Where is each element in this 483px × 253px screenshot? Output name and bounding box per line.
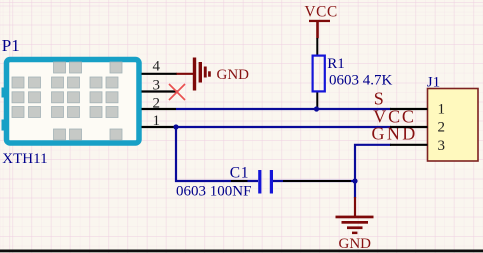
svg-text:2: 2 [438, 120, 446, 136]
row4 holes [12, 107, 118, 118]
resistor R1 [313, 38, 325, 109]
svg-text:R1: R1 [327, 56, 345, 72]
power symbol VCC [305, 4, 338, 39]
svg-text:0603 4.7K: 0603 4.7K [329, 73, 393, 89]
junction on net VCC at P1 pin 1 [173, 124, 178, 129]
designator J1 [427, 75, 440, 91]
net label S [374, 88, 384, 108]
wire net GND to J1 pin 3 [355, 145, 391, 198]
pin 2 of J1 [390, 120, 445, 136]
row3 holes [12, 92, 118, 103]
svg-text:3: 3 [438, 138, 446, 154]
value XTH11 [2, 151, 47, 167]
pin 3 of J1 [390, 138, 445, 154]
value 0603 4.7K [329, 73, 393, 89]
pin 3 of P1 [142, 78, 179, 94]
svg-text:S: S [374, 88, 384, 108]
svg-text:GND: GND [217, 67, 250, 83]
capacitor C1 [231, 170, 355, 194]
net label VCC [373, 107, 415, 127]
earth ground symbol [336, 197, 374, 252]
svg-text:4: 4 [153, 58, 161, 74]
svg-text:XTH11: XTH11 [2, 151, 47, 167]
connector J1 body [428, 89, 479, 162]
wire from VCC junction down to C1 [176, 127, 258, 181]
no-ERC cross on pin 3 [169, 84, 185, 100]
value 0603 100NF [176, 184, 251, 200]
junction on net S at R1 [314, 106, 319, 111]
net label GND [372, 124, 418, 144]
designator C1 [230, 164, 249, 181]
designator P1 [2, 36, 20, 55]
junction on net GND at C1 [352, 178, 357, 183]
svg-text:0603 100NF: 0603 100NF [176, 184, 251, 200]
row2 holes [12, 77, 118, 88]
pin 4 of P1 [142, 58, 178, 74]
svg-text:2: 2 [153, 95, 161, 111]
svg-text:VCC: VCC [305, 4, 338, 21]
svg-text:J1: J1 [427, 75, 440, 91]
component P1 sensor body [2, 60, 140, 144]
svg-text:P1: P1 [2, 36, 20, 55]
svg-text:1: 1 [153, 113, 161, 129]
wire net S [176, 108, 391, 110]
wire net VCC [176, 126, 391, 128]
svg-text:C1: C1 [230, 164, 249, 181]
pin 2 of P1 [142, 95, 177, 111]
row5 holes [54, 129, 123, 140]
power ground symbol on pin 4 [177, 58, 250, 91]
pin 1 of P1 [142, 113, 177, 129]
pin 1 of J1 [390, 101, 445, 117]
row1 holes [54, 62, 123, 73]
designator R1 [327, 56, 345, 72]
svg-text:3: 3 [153, 78, 161, 94]
svg-text:1: 1 [438, 101, 446, 117]
